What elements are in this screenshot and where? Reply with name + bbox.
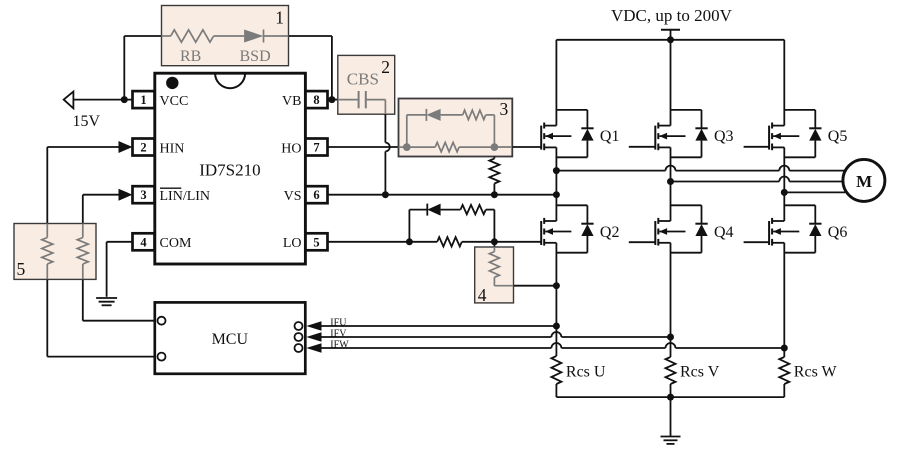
label 3 [500, 99, 509, 119]
wire box5 left to MCU [47, 279, 157, 356]
motor M [843, 159, 885, 201]
pin number 1 [140, 93, 146, 107]
pin 2 box [133, 139, 155, 156]
highlight box 1 (bootstrap RB/BSD) [162, 6, 289, 66]
pin number 2 [140, 141, 146, 155]
gate stub Q4 [629, 241, 656, 243]
wire VS [328, 194, 557, 196]
node box4 dot [553, 282, 560, 289]
label RB [180, 48, 201, 65]
pin 3 box [133, 186, 155, 203]
resistor box3 gate [435, 142, 459, 151]
label M [856, 172, 872, 191]
diode BSD [214, 30, 289, 43]
resistor LO top [461, 205, 486, 214]
svg-text:Rcs W: Rcs W [794, 363, 838, 380]
node VDC dot [667, 36, 674, 43]
wire IFW [322, 347, 785, 349]
wire hop phaseV over W column [779, 177, 789, 182]
MCU pin circle right 1 [295, 322, 303, 330]
pin number 8 [313, 93, 319, 107]
label 2 [381, 57, 390, 77]
wire VDC rail [556, 39, 784, 41]
svg-text:LO: LO [283, 236, 302, 251]
IC pin1 marker dot [166, 77, 178, 89]
svg-text:2: 2 [140, 141, 146, 155]
gate stub Q5 [744, 146, 770, 148]
15V supply arrow [64, 92, 74, 109]
resistor box4 [489, 247, 513, 286]
highlight box 5 (input filter resistors) [14, 224, 96, 280]
transistor Q4 [655, 205, 707, 357]
wire LO top branch [409, 210, 494, 242]
node LO left dot [406, 238, 413, 245]
svg-text:1: 1 [275, 7, 284, 27]
wire LO [328, 241, 542, 243]
resistor Rcs V [666, 357, 676, 384]
svg-text:Q1: Q1 [600, 128, 620, 145]
wire LIN [83, 195, 119, 224]
node IFW dot [781, 345, 788, 352]
label Q1 [600, 128, 620, 145]
node box3 right dot [491, 143, 499, 151]
label IFW [330, 339, 349, 350]
gate stub Q3 [629, 146, 656, 148]
pin label HIN [160, 141, 185, 156]
label MCU [212, 331, 249, 348]
wire to main ground [670, 397, 672, 436]
svg-text:1: 1 [140, 93, 146, 107]
svg-text:RB: RB [180, 48, 201, 65]
node phase W dot [781, 189, 788, 196]
node VB junction dot [328, 96, 335, 103]
svg-text:Q4: Q4 [714, 224, 734, 241]
svg-text:MCU: MCU [212, 331, 249, 348]
svg-text:M: M [856, 172, 872, 191]
pin number 5 [313, 235, 319, 249]
arrow into pin 2 [119, 141, 133, 153]
wire hop phaseU over V column [666, 166, 676, 171]
svg-text:LIN/LIN: LIN/LIN [160, 189, 211, 204]
node VS-pulldown dot [491, 191, 498, 198]
wire box3 to Q1 gate [494, 146, 541, 148]
node box3 left dot [403, 143, 411, 151]
label Q3 [714, 128, 734, 145]
pin number 7 [313, 141, 319, 155]
label ID7S210 [199, 161, 260, 180]
diode LO (points left) [427, 204, 440, 216]
wire VB pin to CBS [328, 99, 338, 101]
wire LO to box4 [493, 242, 495, 247]
wire IFV [322, 336, 671, 338]
node phase V dot [667, 178, 674, 185]
label Q4 [714, 224, 734, 241]
pin 1 box [133, 91, 155, 108]
pin number 4 [140, 235, 147, 249]
svg-text:Q5: Q5 [828, 128, 848, 145]
IC notch [215, 73, 245, 88]
MCU pin circle right 2 [295, 333, 303, 341]
node phase U dot [553, 167, 560, 174]
node VS-CBS dot [382, 191, 389, 198]
wire box3 bottom [399, 146, 495, 148]
pin label LO [283, 236, 302, 251]
label 4 [478, 285, 487, 305]
resistor LO gate [437, 237, 462, 246]
highlight box 4 (LO pulldown) [475, 247, 514, 303]
pin 6 box [306, 186, 328, 203]
svg-text:2: 2 [381, 57, 390, 77]
svg-text:5: 5 [313, 235, 319, 249]
svg-text:8: 8 [313, 93, 319, 107]
arrow IFU into MCU [306, 321, 321, 330]
svg-text:HIN: HIN [160, 141, 185, 156]
wire hop phaseU over W column [779, 166, 789, 171]
svg-text:Rcs U: Rcs U [566, 363, 606, 380]
label Q5 [828, 128, 848, 145]
MCU pin circle left top [158, 317, 166, 325]
label CBS [347, 69, 379, 88]
ground (COM) [96, 298, 117, 305]
label IFU [330, 317, 347, 328]
pin label VCC [160, 94, 189, 109]
label VDC [611, 6, 733, 25]
15V label [73, 113, 101, 130]
transistor Q5 [769, 40, 821, 221]
svg-text:Q6: Q6 [828, 224, 848, 241]
svg-text:3: 3 [140, 188, 146, 202]
pin label VB [282, 94, 301, 109]
label Q6 [828, 224, 848, 241]
wire CBS down to VS [384, 114, 386, 195]
highlight box 2 (CBS bootstrap cap) [338, 55, 395, 114]
wire box3 top branch [407, 115, 495, 147]
wire HO [328, 146, 399, 148]
svg-text:VB: VB [282, 94, 301, 109]
svg-text:Rcs V: Rcs V [680, 363, 720, 380]
resistor HO pulldown [489, 157, 499, 195]
wire IFU [322, 325, 557, 327]
diode box3 (points left) [426, 109, 440, 121]
gate stub Q6 [744, 241, 770, 243]
svg-text:4: 4 [140, 235, 147, 249]
pin label HO [281, 141, 301, 156]
label 5 [17, 259, 26, 279]
wire phase U [556, 170, 845, 172]
svg-text:CBS: CBS [347, 69, 379, 88]
pin 8 box [306, 91, 328, 108]
svg-text:5: 5 [17, 259, 26, 279]
transistor Q1 [541, 40, 593, 221]
wire box4 to Q2 source [514, 285, 557, 287]
node LO right dot [491, 238, 498, 245]
svg-text:VS: VS [284, 189, 302, 204]
svg-text:VDC, up to 200V: VDC, up to 200V [611, 6, 733, 25]
wire phase V [671, 181, 844, 183]
svg-text:Q2: Q2 [600, 224, 620, 241]
node IFU dot [553, 323, 560, 330]
node bottom rail dot [667, 394, 674, 401]
svg-text:HO: HO [281, 141, 301, 156]
wire RB box to VB [289, 36, 332, 100]
pin 7 box [306, 139, 328, 156]
label Q2 [600, 224, 620, 241]
wire VCC up to RB box [124, 36, 161, 100]
label Rcs W [794, 363, 838, 380]
pin number 6 [313, 188, 319, 202]
wire box5 right to MCU [83, 279, 158, 320]
svg-text:COM: COM [160, 236, 192, 251]
svg-text:Q3: Q3 [714, 128, 734, 145]
wire phase W [784, 191, 845, 193]
wire 15V to VCC pin1 [73, 99, 132, 101]
ground (main) [661, 437, 681, 444]
resistor box3 top [463, 110, 486, 119]
arrow IFV into MCU [306, 332, 321, 341]
svg-text:7: 7 [313, 141, 319, 155]
MCU pin circle left bottom [158, 353, 166, 361]
label Rcs V [680, 363, 720, 380]
label 1 [275, 7, 284, 27]
wire HIN [47, 147, 118, 224]
MCU block [155, 302, 305, 373]
wire vertical hop over HO line [385, 143, 389, 152]
node IFV dot [667, 334, 674, 341]
label BSD [240, 48, 271, 65]
transistor Q6 [769, 205, 821, 357]
wire COM to ground [107, 242, 133, 297]
pin label COM [160, 236, 192, 251]
VDC terminal tick [661, 30, 680, 40]
resistor Rcs U [551, 356, 561, 384]
svg-text:VCC: VCC [160, 94, 189, 109]
op-amp U1 ID7S210 body [155, 73, 306, 264]
transistor Q2 [541, 205, 593, 356]
wire shunt bottom rail [556, 384, 784, 397]
capacitor CBS [338, 91, 386, 114]
resistor RB [162, 30, 214, 42]
svg-text:15V: 15V [73, 113, 101, 130]
pin 5 box [306, 233, 328, 250]
resistor Rcs W [779, 357, 789, 384]
resistor box5 right [77, 224, 88, 280]
svg-text:BSD: BSD [240, 48, 271, 65]
arrow into pin 3 [119, 189, 133, 201]
label IFV [330, 328, 347, 339]
transistor Q3 [655, 40, 707, 221]
svg-text:4: 4 [478, 285, 487, 305]
highlight box 3 (HO gate network) [399, 99, 513, 157]
MCU pin circle right 3 [295, 344, 303, 352]
node VS-phase dot [553, 191, 560, 198]
wire hop IFV over U column [551, 332, 561, 337]
pin 4 box [133, 233, 155, 250]
wire hop IFW over U column [551, 343, 561, 348]
pin label LIN/LIN [160, 188, 211, 204]
arrow IFW into MCU [306, 343, 321, 352]
wire hop IFW over V column [666, 343, 676, 348]
label Rcs U [566, 363, 606, 380]
resistor box5 left [42, 224, 53, 280]
svg-text:6: 6 [313, 188, 319, 202]
svg-text:3: 3 [500, 99, 509, 119]
svg-text:ID7S210: ID7S210 [199, 161, 260, 180]
pin number 3 [140, 188, 146, 202]
pin label VS [284, 189, 302, 204]
node VCC junction dot [121, 96, 128, 103]
